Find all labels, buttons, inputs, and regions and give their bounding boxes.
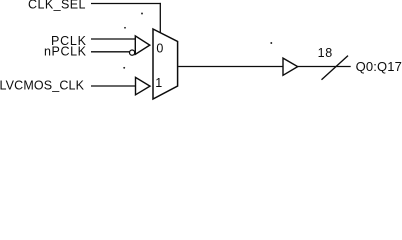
svg-text:1: 1 <box>155 76 162 90</box>
svg-text:nPCLK: nPCLK <box>44 45 87 59</box>
wire CLK_SEL horizontal <box>91 3 161 5</box>
bus width slash <box>322 56 349 80</box>
differential input buffer (PCLK/nPCLK) <box>135 36 150 54</box>
LVCMOS input buffer <box>136 77 151 94</box>
svg-text:Q0:Q17: Q0:Q17 <box>356 59 402 74</box>
speck artifact left of mux top <box>124 27 126 29</box>
wire buffer to output <box>298 66 351 68</box>
svg-text:CLK_SEL: CLK_SEL <box>28 0 86 12</box>
speck artifact near select line <box>141 13 143 15</box>
speck artifact below diff buffer <box>123 67 125 69</box>
wire mux output to buffer <box>178 66 283 68</box>
svg-text:LVCMOS_CLK: LVCMOS_CLK <box>0 79 85 93</box>
svg-text:18: 18 <box>318 46 333 60</box>
output buffer <box>283 58 298 75</box>
wire LVCMOS_CLK <box>91 85 136 87</box>
svg-text:0: 0 <box>156 41 163 55</box>
wire PCLK <box>91 38 135 40</box>
mux (2:1 clock select) <box>153 29 178 99</box>
wire CLK_SEL vertical (select line into mux) <box>159 3 161 33</box>
wire nPCLK <box>91 51 130 53</box>
speck artifact above output wire <box>270 42 272 44</box>
inversion bubble on nPCLK input <box>130 50 135 55</box>
